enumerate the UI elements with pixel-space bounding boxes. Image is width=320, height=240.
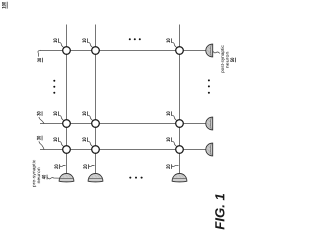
wire column 20 (left) <box>66 25 68 174</box>
ellipsis dots bottom (between col2 and col3) <box>129 177 131 179</box>
synapse 10 circle row3 col3 <box>176 146 184 154</box>
leader from label 20 to column wire 2 <box>89 165 95 166</box>
wire column 20 (right) <box>179 25 181 174</box>
leader from label 30 to bottom row wire <box>39 141 44 149</box>
text label "pre-synaptic neuron 40" <box>32 160 47 187</box>
leader from label 10 to synapse row2 col2 <box>88 115 93 120</box>
label 10 for synapse row3 col3 <box>166 138 170 142</box>
leader from label 10 to synapse row3 col3 <box>172 141 177 146</box>
label 10 for synapse row2 col3 <box>166 112 170 116</box>
wire row 30 (top) <box>40 50 206 52</box>
pre-synaptic neuron dome 40 under column 3 <box>172 174 187 182</box>
leader from label 10 to synapse row2 col3 <box>172 115 177 120</box>
ellipsis dots right (between row1 and row2) <box>208 79 210 81</box>
label 30 for bottom row wire <box>37 136 41 140</box>
text label "post-synaptic neuron 50" <box>221 45 236 72</box>
label 10 for synapse row3 col2 <box>82 138 86 142</box>
leader from label 20 to column wire 3 <box>172 165 179 166</box>
label 20 for column wire 3 <box>166 165 170 169</box>
synapse 10 circle row2 col2 <box>92 120 100 128</box>
label 10 for synapse row2 col1 <box>53 112 57 116</box>
synapse 10 circle row3 col1 <box>63 146 71 154</box>
label 20 for column wire 2 <box>83 165 87 169</box>
leader from post-synaptic dome 1 to its label <box>213 51 220 53</box>
leader from label 10 to synapse row1 col3 <box>172 42 177 47</box>
leader from label 10 to synapse row2 col1 <box>59 115 64 120</box>
label 100 overall array reference <box>2 2 6 9</box>
leader from label 40 to pre-synaptic dome 1 <box>47 177 60 179</box>
post-synaptic neuron dome 50 at end of row 2 <box>206 117 213 130</box>
label 30 for middle row wire <box>37 111 41 115</box>
post-synaptic neuron dome 50 at end of row 1 <box>206 44 213 57</box>
label 10 for synapse row1 col3 <box>166 39 170 43</box>
synapse 10 circle row1 col3 <box>176 47 184 55</box>
leader from label 10 to synapse row1 col2 <box>88 42 93 47</box>
wire column 20 (center) <box>95 25 97 174</box>
leader from label 20 to column wire 1 <box>60 165 66 166</box>
label 30 for top row wire <box>37 58 41 62</box>
synapse 10 circle row1 col2 <box>92 47 100 55</box>
leader from label 30 (top) to row wire <box>38 50 40 56</box>
post-synaptic neuron dome 50 at end of row 3 <box>206 143 213 156</box>
label 20 for column wire 1 <box>54 165 58 169</box>
ellipsis dots top (between col2 and col3) <box>129 38 131 40</box>
label 10 for synapse row2 col2 <box>82 112 86 116</box>
figure title FIG. 1 <box>215 194 224 230</box>
label 10 for synapse row3 col1 <box>53 138 57 142</box>
wire row 30 (bottom) <box>40 149 206 151</box>
synapse 10 circle row3 col2 <box>92 146 100 154</box>
ellipsis dots left (between row1 and row2) <box>53 80 55 82</box>
synapse 10 circle row1 col1 <box>63 47 71 55</box>
label 10 for synapse row1 col1 <box>53 39 57 43</box>
leader from label 10 to synapse row3 col1 <box>59 141 64 146</box>
label 10 for synapse row1 col2 <box>82 39 86 43</box>
synapse 10 circle row2 col3 <box>176 120 184 128</box>
leader from label 10 to synapse row3 col2 <box>88 141 93 146</box>
pre-synaptic neuron dome 40 under column 1 <box>59 174 74 182</box>
leader from label 30 to middle row wire <box>39 117 44 124</box>
pre-synaptic neuron dome 40 under column 2 <box>88 174 103 182</box>
leader from label 10 to synapse row1 col1 <box>59 42 64 47</box>
synapse 10 circle row2 col1 <box>63 120 71 128</box>
wire row 30 (middle) <box>40 123 206 125</box>
